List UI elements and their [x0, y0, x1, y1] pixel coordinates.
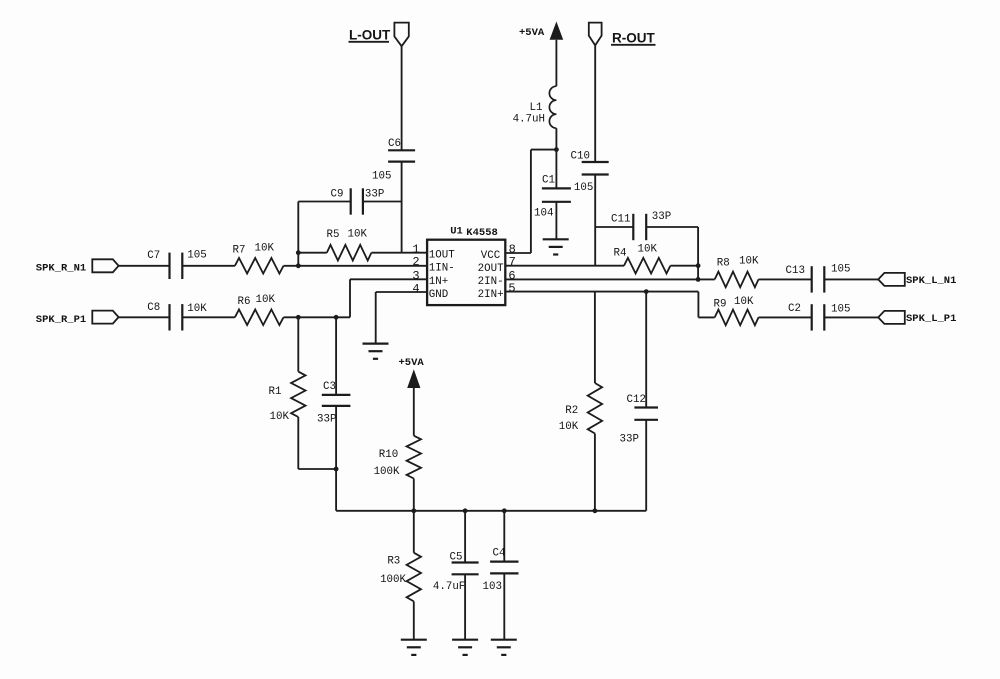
svg-text:3: 3	[412, 269, 419, 283]
resistor R4	[614, 244, 671, 274]
svg-text:L-OUT: L-OUT	[349, 28, 391, 43]
node R4-C11 junction	[696, 263, 701, 268]
connector J-ROUT	[589, 23, 602, 46]
svg-text:10K: 10K	[255, 243, 275, 255]
resistor R5	[298, 229, 401, 261]
svg-text:SPK_R_N1: SPK_R_N1	[36, 263, 86, 275]
svg-text:C3: C3	[323, 381, 336, 393]
svg-text:L1: L1	[530, 102, 543, 114]
svg-text:2IN+: 2IN+	[478, 289, 504, 301]
wire C7 to R7	[182, 265, 235, 267]
svg-text:C12: C12	[627, 394, 646, 406]
svg-text:C9: C9	[331, 189, 344, 201]
capacitor C4	[483, 511, 519, 593]
svg-text:10K: 10K	[734, 296, 754, 308]
U1 pin numbers left	[412, 243, 419, 296]
svg-text:C2: C2	[788, 303, 801, 315]
inductor L1	[513, 86, 557, 128]
port L-OUT label	[349, 28, 391, 43]
node bus C4	[502, 508, 507, 513]
svg-text:C10: C10	[571, 151, 590, 163]
svg-text:C1: C1	[542, 175, 555, 187]
svg-text:R9: R9	[714, 299, 727, 311]
svg-text:R3: R3	[387, 555, 400, 567]
wire C10 down to pin7 line	[594, 175, 596, 266]
wire C3 to bus	[335, 406, 337, 511]
port R-OUT label	[611, 31, 656, 46]
svg-text:R4: R4	[614, 247, 627, 259]
node bus R10	[411, 508, 416, 513]
svg-text:R5: R5	[327, 229, 340, 241]
svg-text:33P: 33P	[652, 211, 671, 223]
svg-text:C7: C7	[147, 250, 160, 262]
wire R8 to C13	[759, 278, 812, 280]
svg-text:R10: R10	[379, 449, 398, 461]
svg-text:100K: 100K	[380, 574, 406, 586]
svg-text:R7: R7	[233, 245, 246, 257]
svg-text:33P: 33P	[317, 413, 336, 425]
svg-text:R6: R6	[238, 296, 251, 308]
svg-text:1IN-: 1IN-	[429, 263, 455, 275]
svg-text:C6: C6	[388, 138, 401, 150]
svg-text:VCC: VCC	[481, 250, 501, 262]
node bus R2	[593, 508, 598, 513]
svg-text:10K: 10K	[256, 294, 276, 306]
svg-text:105: 105	[372, 171, 391, 183]
svg-text:4: 4	[412, 282, 419, 296]
port SPK_R_P1	[36, 311, 119, 326]
wire R1 bottom to C3	[298, 468, 336, 470]
port SPK_L_N1	[878, 273, 956, 287]
ground C1	[543, 239, 569, 254]
svg-text:R-OUT: R-OUT	[612, 31, 655, 46]
ground U1	[363, 344, 389, 359]
svg-text:10K: 10K	[187, 303, 207, 315]
node B feedback-bottom	[296, 263, 301, 268]
node bus C5	[463, 508, 468, 513]
svg-text:R1: R1	[269, 386, 282, 398]
wire L1 to node	[555, 128, 557, 149]
svg-text:5: 5	[508, 281, 515, 295]
svg-text:C11: C11	[611, 214, 630, 226]
ground C4	[491, 640, 517, 655]
svg-text:C8: C8	[147, 302, 160, 314]
svg-text:105: 105	[831, 304, 850, 316]
wire R4 to junction	[670, 265, 698, 267]
svg-text:R8: R8	[717, 257, 730, 269]
svg-text:R2: R2	[565, 405, 578, 417]
wire node to pin8	[505, 150, 556, 253]
resistor R9	[714, 296, 759, 325]
wire SPK_R_N1 to C7	[119, 265, 170, 267]
svg-text:2IN-: 2IN-	[478, 276, 504, 288]
svg-text:C5: C5	[450, 551, 463, 563]
wire C2 to port	[824, 316, 878, 318]
resistor R1	[269, 317, 306, 469]
port SPK_R_N1	[36, 259, 119, 274]
port SPK_L_P1	[878, 311, 956, 325]
svg-text:7: 7	[509, 255, 516, 269]
svg-text:GND: GND	[429, 289, 448, 301]
wire pin1 lead	[402, 252, 428, 254]
svg-text:2OUT: 2OUT	[478, 263, 504, 275]
wire C4 to ground	[503, 573, 505, 639]
svg-text:10K: 10K	[559, 421, 579, 433]
capacitor C6	[372, 138, 415, 183]
wire C8 to R6	[182, 316, 235, 318]
capacitor C2	[788, 303, 850, 331]
wire R7 to pin2	[284, 265, 428, 267]
svg-text:10K: 10K	[348, 229, 368, 241]
capacitor C3	[317, 317, 350, 425]
capacitor C12	[620, 292, 658, 446]
wire R6 to pin3 riser	[284, 279, 428, 317]
op-amp U1 K4558 box	[427, 226, 505, 306]
capacitor C13	[786, 264, 851, 293]
capacitor C1	[534, 150, 571, 220]
node R1-C3 bottom	[334, 467, 339, 472]
svg-text:33P: 33P	[620, 433, 639, 445]
U1 pin names left	[429, 250, 455, 301]
power +5VA top	[519, 22, 563, 87]
svg-text:K4558: K4558	[466, 227, 498, 239]
capacitor C5	[433, 511, 479, 593]
svg-text:SPK_L_N1: SPK_L_N1	[906, 275, 956, 287]
wire R-OUT to C10	[594, 45, 596, 162]
capacitor C11	[595, 211, 671, 240]
svg-text:104: 104	[534, 208, 553, 220]
resistor R2	[559, 292, 602, 511]
svg-text:+5VA: +5VA	[519, 27, 545, 39]
wire feedback left vertical	[297, 202, 299, 266]
svg-text:+5VA: +5VA	[399, 357, 425, 369]
wire L-OUT to C6	[401, 46, 403, 150]
svg-text:105: 105	[831, 264, 850, 276]
capacitor C10	[571, 151, 609, 195]
wire C5 to ground	[464, 574, 466, 639]
capacitor C7	[147, 250, 206, 280]
power +5VA mid	[399, 357, 425, 436]
connector J-LOUT	[394, 23, 408, 47]
wire C1 to ground	[555, 202, 557, 240]
wire C13 to port	[824, 278, 878, 280]
node A feedback-top	[296, 250, 301, 255]
node C3 tap	[334, 315, 339, 320]
svg-text:2: 2	[412, 255, 419, 269]
capacitor C9	[298, 188, 401, 214]
wire C12 to bus	[645, 420, 647, 511]
wire pin5 row	[505, 292, 714, 318]
wire C6 to pin1 node	[401, 162, 403, 253]
wire bias bus	[336, 510, 646, 512]
svg-text:10K: 10K	[739, 256, 759, 268]
svg-text:C13: C13	[786, 265, 805, 277]
wire GND pin4	[376, 292, 427, 344]
resistor R8	[715, 256, 759, 288]
svg-text:105: 105	[187, 250, 206, 262]
wire SPK_R_P1 to C8	[119, 316, 170, 318]
wire C11 to R4 right	[646, 227, 698, 279]
node VCC junction	[554, 147, 559, 152]
svg-text:1OUT: 1OUT	[429, 250, 455, 262]
svg-text:10K: 10K	[270, 411, 290, 423]
U1 pin numbers right	[508, 243, 515, 296]
resistor R3	[380, 511, 421, 640]
svg-text:1N+: 1N+	[429, 276, 448, 288]
svg-text:103: 103	[483, 581, 502, 593]
svg-text:33P: 33P	[365, 189, 384, 201]
ground C5	[452, 640, 478, 655]
svg-text:4.7uH: 4.7uH	[513, 114, 545, 126]
svg-text:105: 105	[574, 182, 593, 194]
svg-text:SPK_R_P1: SPK_R_P1	[36, 314, 86, 326]
svg-text:10K: 10K	[638, 244, 658, 256]
capacitor C8	[147, 302, 207, 331]
svg-text:4.7uF: 4.7uF	[433, 581, 465, 593]
resistor R6	[235, 294, 284, 325]
node C12 tap	[644, 289, 649, 294]
wire pin7 row	[505, 265, 624, 267]
svg-text:100K: 100K	[374, 466, 400, 478]
U1 pin names right	[478, 250, 504, 301]
svg-text:U1: U1	[450, 226, 463, 238]
resistor R7	[233, 243, 284, 274]
svg-text:SPK_L_P1: SPK_L_P1	[906, 313, 956, 325]
wire R9 to C2	[759, 316, 812, 318]
wire pin6 row	[505, 278, 714, 280]
node R1 tap	[296, 315, 301, 320]
ground R3	[401, 640, 427, 655]
svg-text:C4: C4	[493, 547, 506, 559]
resistor R10	[374, 436, 421, 511]
node pin6 junction	[696, 277, 701, 282]
